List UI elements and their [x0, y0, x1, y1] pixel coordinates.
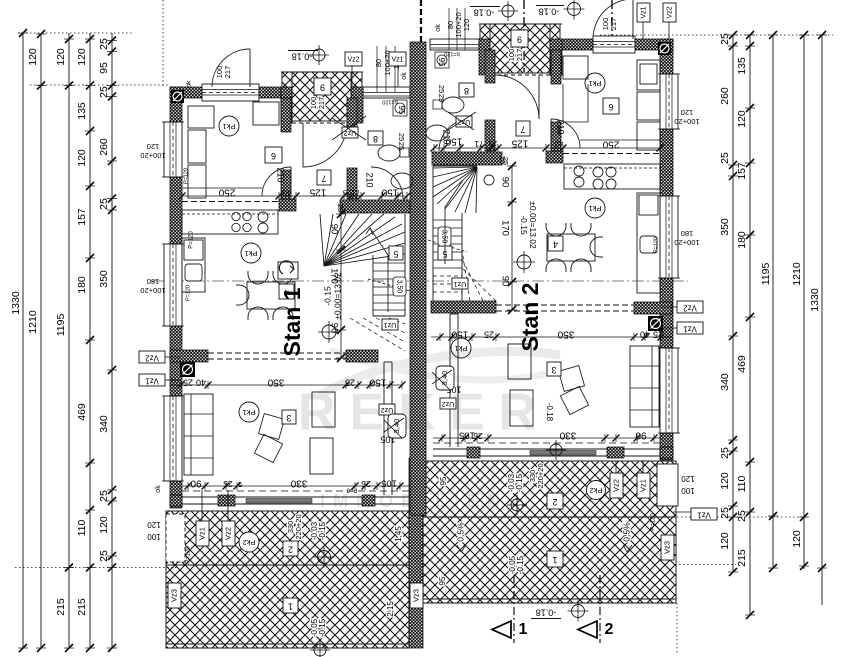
svg-text:1210: 1210 — [791, 262, 803, 286]
svg-text:210: 210 — [365, 172, 375, 187]
svg-text:469: 469 — [736, 355, 748, 373]
svg-text:Vz2: Vz2 — [666, 6, 673, 18]
svg-text:350: 350 — [557, 328, 574, 339]
svg-text:7: 7 — [520, 125, 525, 135]
svg-text:100+20: 100+20 — [140, 151, 165, 160]
svg-text:340: 340 — [719, 373, 731, 391]
svg-text:120: 120 — [98, 516, 110, 534]
svg-text:Uz2: Uz2 — [381, 406, 394, 413]
svg-text:25: 25 — [437, 94, 446, 102]
svg-text:157: 157 — [76, 208, 88, 226]
svg-text:71: 71 — [351, 188, 360, 197]
svg-text:25: 25 — [473, 431, 483, 441]
svg-text:2,15: 2,15 — [386, 601, 395, 617]
svg-text:25: 25 — [98, 198, 110, 210]
svg-text:Uz2: Uz2 — [442, 400, 455, 407]
svg-text:8: 8 — [373, 134, 378, 144]
svg-text:Pk2: Pk2 — [590, 486, 603, 495]
svg-text:-0.18: -0.18 — [474, 8, 495, 18]
svg-text:71: 71 — [474, 139, 483, 148]
svg-text:P=120: P=120 — [185, 285, 191, 301]
svg-text:100: 100 — [681, 486, 695, 495]
svg-text:ok: ok — [401, 72, 408, 80]
svg-text:120: 120 — [462, 19, 471, 32]
svg-text:25: 25 — [719, 447, 731, 459]
svg-text:100+20: 100+20 — [674, 117, 699, 126]
svg-text:25: 25 — [345, 378, 355, 388]
svg-text:1195: 1195 — [55, 314, 67, 337]
svg-text:125: 125 — [309, 186, 326, 197]
svg-text:-0.15: -0.15 — [318, 618, 327, 637]
svg-text:-0.15: -0.15 — [516, 555, 525, 574]
svg-text:120: 120 — [736, 110, 748, 128]
svg-text:Uz1: Uz1 — [384, 321, 397, 328]
svg-text:90: 90 — [499, 177, 510, 188]
svg-text:Vz1: Vz1 — [697, 510, 711, 519]
svg-text:180: 180 — [736, 231, 748, 249]
svg-text:95: 95 — [438, 576, 447, 585]
svg-text:P=120: P=120 — [183, 168, 189, 184]
svg-text:Pk1: Pk1 — [589, 79, 602, 88]
svg-text:9: 9 — [517, 35, 522, 45]
svg-text:2: 2 — [552, 497, 557, 507]
svg-text:Uz1: Uz1 — [454, 280, 467, 287]
svg-text:25: 25 — [736, 510, 748, 522]
svg-text:25: 25 — [98, 550, 110, 562]
svg-text:25: 25 — [343, 188, 351, 197]
svg-text:3,50: 3,50 — [396, 280, 403, 294]
svg-text:Pk1: Pk1 — [223, 122, 236, 131]
svg-text:25: 25 — [361, 479, 371, 489]
svg-text:Pk1: Pk1 — [589, 204, 602, 213]
svg-text:120: 120 — [719, 472, 731, 490]
svg-text:215: 215 — [76, 598, 88, 616]
svg-text:217: 217 — [515, 49, 524, 62]
svg-text:-0.15: -0.15 — [519, 215, 529, 235]
svg-text:P=120: P=120 — [186, 546, 192, 564]
svg-text:105: 105 — [381, 477, 397, 488]
svg-text:100: 100 — [147, 532, 161, 541]
svg-text:40: 40 — [640, 330, 650, 340]
svg-text:330: 330 — [290, 477, 307, 488]
svg-text:120: 120 — [76, 149, 88, 167]
svg-text:135: 135 — [76, 102, 88, 120]
svg-text:7: 7 — [321, 174, 326, 184]
svg-text:Vz2: Vz2 — [611, 479, 620, 492]
svg-text:95: 95 — [397, 106, 406, 115]
svg-text:25: 25 — [183, 378, 193, 388]
svg-text:125: 125 — [511, 137, 528, 148]
svg-text:350: 350 — [719, 218, 731, 236]
svg-text:-0.15: -0.15 — [515, 473, 524, 492]
svg-text:9: 9 — [320, 83, 325, 93]
svg-text:b=120: b=120 — [444, 51, 459, 57]
svg-text:3: 3 — [286, 413, 291, 423]
svg-text:ok: ok — [435, 24, 442, 32]
svg-text:Vz1: Vz1 — [145, 376, 159, 385]
svg-text:P=120: P=120 — [651, 513, 657, 531]
svg-text:180: 180 — [76, 276, 88, 294]
svg-text:110: 110 — [736, 475, 748, 492]
svg-text:90: 90 — [635, 429, 647, 440]
svg-text:5: 5 — [393, 249, 398, 259]
svg-text:90: 90 — [190, 477, 202, 488]
svg-text:120: 120 — [791, 530, 803, 548]
svg-text:217: 217 — [223, 66, 232, 79]
svg-text:25: 25 — [98, 490, 110, 502]
svg-text:Vz1: Vz1 — [197, 527, 206, 540]
svg-text:40: 40 — [554, 139, 563, 148]
svg-text:110: 110 — [76, 519, 88, 536]
svg-text:Vz3: Vz3 — [411, 589, 420, 602]
svg-text:b=120: b=120 — [382, 99, 397, 105]
svg-text:217: 217 — [317, 97, 326, 110]
svg-text:3: 3 — [551, 365, 556, 375]
svg-text:-0.18: -0.18 — [545, 403, 554, 422]
svg-text:120: 120 — [76, 48, 88, 66]
svg-text:25: 25 — [719, 152, 731, 164]
svg-text:95: 95 — [437, 58, 446, 67]
svg-text:150: 150 — [451, 328, 468, 339]
svg-text:Uz2: Uz2 — [458, 118, 471, 125]
svg-text:Vz1: Vz1 — [640, 6, 647, 18]
svg-text:2: 2 — [605, 621, 614, 638]
svg-text:25: 25 — [397, 133, 406, 141]
svg-text:1195: 1195 — [760, 263, 772, 286]
svg-text:217: 217 — [609, 18, 618, 31]
svg-text:25: 25 — [719, 507, 731, 519]
svg-text:215: 215 — [736, 549, 748, 567]
svg-text:25: 25 — [719, 33, 731, 45]
svg-text:Vz2: Vz2 — [223, 527, 232, 540]
svg-text:90: 90 — [499, 276, 510, 287]
svg-text:100+20: 100+20 — [140, 286, 165, 295]
svg-text:350: 350 — [98, 270, 110, 288]
svg-text:-0.18: -0.18 — [539, 7, 560, 17]
svg-text:120: 120 — [55, 48, 67, 66]
svg-text:80: 80 — [374, 59, 383, 67]
svg-text:220+20: 220+20 — [536, 463, 545, 488]
svg-text:100+20: 100+20 — [674, 238, 699, 247]
svg-text:260: 260 — [719, 87, 731, 105]
svg-text:25: 25 — [223, 479, 233, 489]
svg-text:25: 25 — [397, 142, 406, 150]
svg-text:95: 95 — [98, 62, 110, 74]
svg-text:Vz1: Vz1 — [683, 324, 697, 333]
svg-text:95: 95 — [439, 476, 448, 485]
svg-text:Pk2: Pk2 — [243, 538, 256, 547]
svg-text:180: 180 — [681, 229, 694, 238]
svg-text:25: 25 — [484, 330, 494, 340]
svg-text:25: 25 — [501, 157, 510, 165]
svg-text:Stan 1: Stan 1 — [279, 287, 305, 356]
svg-text:120: 120 — [27, 48, 39, 66]
svg-text:180: 180 — [147, 277, 160, 286]
svg-text:469: 469 — [76, 403, 88, 421]
svg-text:0,5%: 0,5% — [455, 522, 465, 542]
svg-text:8: 8 — [464, 86, 469, 96]
svg-text:330: 330 — [559, 429, 576, 440]
svg-text:157: 157 — [736, 162, 748, 180]
svg-text:6: 6 — [608, 102, 613, 112]
svg-text:-0.15: -0.15 — [318, 521, 327, 540]
svg-text:120: 120 — [719, 532, 731, 550]
svg-text:1330: 1330 — [809, 288, 821, 312]
svg-text:260: 260 — [98, 138, 110, 156]
svg-text:Stan 2: Stan 2 — [517, 282, 543, 351]
svg-text:Pk1: Pk1 — [245, 249, 258, 258]
svg-text:4: 4 — [553, 240, 558, 250]
svg-text:340: 340 — [98, 415, 110, 433]
svg-text:P=120: P=120 — [189, 231, 195, 249]
svg-text:-0.15: -0.15 — [322, 286, 332, 306]
svg-text:215: 215 — [55, 598, 67, 616]
svg-text:1: 1 — [519, 621, 528, 638]
svg-text:1210: 1210 — [27, 310, 39, 334]
svg-text:150: 150 — [369, 376, 386, 387]
svg-text:Pk1: Pk1 — [455, 344, 468, 353]
svg-text:0,5%: 0,5% — [621, 522, 631, 542]
svg-text:Vz3: Vz3 — [662, 541, 671, 554]
svg-text:170: 170 — [499, 220, 510, 236]
svg-text:Vz2: Vz2 — [683, 303, 697, 312]
svg-text:2: 2 — [288, 545, 293, 555]
svg-text:210: 210 — [276, 167, 286, 182]
svg-text:25: 25 — [437, 85, 446, 93]
svg-text:1: 1 — [288, 602, 293, 612]
svg-text:25: 25 — [98, 86, 110, 98]
svg-text:40: 40 — [196, 378, 206, 388]
svg-text:120: 120 — [681, 108, 694, 117]
svg-text:Vz1: Vz1 — [638, 479, 647, 492]
svg-text:Pk1: Pk1 — [243, 408, 256, 417]
svg-text:120: 120 — [147, 520, 161, 529]
svg-text:-0.18: -0.18 — [536, 608, 557, 618]
svg-text:1,45: 1,45 — [394, 526, 403, 542]
svg-text:120: 120 — [147, 142, 160, 151]
svg-text:350: 350 — [267, 376, 284, 387]
svg-text:ok: ok — [155, 485, 162, 493]
svg-text:1330: 1330 — [10, 291, 22, 315]
svg-text:5: 5 — [238, 480, 242, 489]
svg-text:25: 25 — [489, 139, 497, 148]
svg-text:105: 105 — [459, 429, 475, 440]
svg-text:Vz2: Vz2 — [145, 353, 159, 362]
svg-text:Vz1: Vz1 — [391, 56, 403, 63]
svg-text:Vz2: Vz2 — [347, 56, 359, 63]
svg-text:1: 1 — [552, 555, 557, 565]
svg-text:Vz3: Vz3 — [169, 589, 178, 602]
svg-text:P=120: P=120 — [653, 237, 659, 253]
svg-text:25: 25 — [98, 38, 110, 50]
svg-text:220+20: 220+20 — [294, 514, 303, 539]
svg-text:90: 90 — [328, 323, 339, 334]
svg-text:ok: ok — [186, 80, 193, 88]
svg-text:P=0: P=0 — [346, 486, 358, 492]
svg-text:25: 25 — [653, 330, 663, 340]
svg-text:6: 6 — [271, 151, 276, 161]
svg-text:3,50: 3,50 — [441, 230, 448, 244]
svg-text:40: 40 — [282, 188, 291, 197]
svg-text:135: 135 — [736, 57, 748, 75]
svg-text:170: 170 — [328, 268, 339, 284]
svg-text:120: 120 — [681, 474, 695, 483]
svg-text:-0.18: -0.18 — [292, 52, 313, 62]
